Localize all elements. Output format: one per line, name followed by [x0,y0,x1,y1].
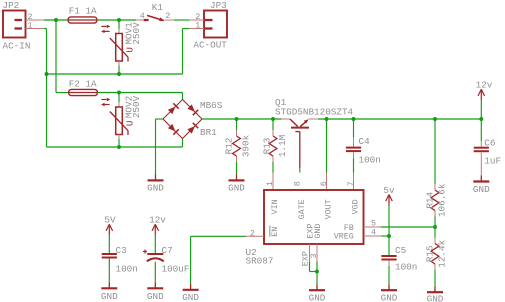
svg-text:12v: 12v [149,215,166,226]
svg-text:JP2: JP2 [3,0,20,11]
wire K1 to JP3-2 [174,19,189,21]
svg-text:VOUT: VOUT [323,199,333,219]
supply 5v at VREG [383,185,395,206]
connector JP2 pin 1 number [28,20,33,30]
capacitor C7 name [162,245,173,256]
wire FB to divider [381,226,435,228]
transistor Q1 part number [275,106,354,117]
fuse F2 label [69,79,97,90]
svg-text:100n: 100n [116,264,138,275]
svg-text:100uF: 100uF [162,264,190,275]
U2 pin name VREG [334,232,354,242]
U2 pin name GATE [297,199,307,219]
capacitor C3 name [116,245,127,256]
svg-text:STGD5NB120SZT4: STGD5NB120SZT4 [275,106,354,117]
svg-text:C4: C4 [359,136,371,147]
wire 5v to VREG node [388,206,390,236]
capacitor C5 bottom lead [388,261,390,285]
wire node row y74 to JP3-1 [47,29,190,75]
svg-text:GND: GND [147,183,164,194]
varistor MOV2 bottom lead [118,135,120,148]
svg-text:390k: 390k [241,134,252,157]
K1 pin 4 lead [136,19,143,21]
svg-text:C5: C5 [395,245,406,256]
svg-text:VIN: VIN [270,199,280,214]
capacitor C4 value 100n [359,154,381,165]
svg-text:6: 6 [319,181,329,186]
junction MOV2 top at (119,92.5) [117,91,121,95]
svg-text:GND: GND [147,291,164,302]
capacitor C5 [381,256,396,260]
svg-text:AC-OUT: AC-OUT [193,40,227,51]
ground on EN net [182,284,199,302]
capacitor C6 value 1uF [484,156,501,167]
junction at (46.5,74) [45,72,49,76]
wire BR1 minus to ground [156,119,164,174]
connector JP3 name label [210,0,227,11]
capacitor C6 bottom lead [480,152,482,175]
svg-text:12v: 12v [476,80,493,91]
U2 pin name FB [344,223,354,233]
resistor R12 [233,136,241,156]
Q1 collector lead [281,118,290,120]
varistor MOV1 bottom lead [118,61,120,74]
resistor R14 leads [434,119,436,227]
BR1 diode left-to-top [168,103,179,114]
wire pin3 to ground [316,262,318,285]
wire down from junction to F2 row [56,20,69,93]
U2 name label [246,247,257,258]
varistor MOV2 top lead [118,93,120,108]
capacitor C3 [102,254,117,258]
U2 pin 1 number [265,181,275,186]
net label EXP [300,251,310,266]
junction MOV1 bottom at (119,74) [117,72,121,76]
BR1 name MB6S [200,100,223,111]
resistor R15 leads [434,227,436,286]
IC U2 box [264,190,364,244]
junction R13 top at (273,119) [271,117,275,121]
svg-text:7: 7 [346,181,356,186]
BR1 diode left-to-bottom [168,124,179,135]
wire DC+ rail [202,118,281,120]
svg-text:R14: R14 [425,192,436,209]
capacitor C6 top lead [480,119,482,147]
U2 pin 6 number [319,181,329,186]
wire VREG node [381,235,389,237]
svg-text:EN: EN [270,227,280,237]
varistor MOV1 value 250V [131,22,142,45]
U2 pin name VOUT [323,199,333,219]
capacitor C4 name [359,136,371,147]
svg-text:EXP: EXP [300,251,310,266]
capacitor C5 value 100n [395,261,417,272]
U2 pin 3 number [309,253,319,258]
K1 fixed contact [144,19,149,21]
junction MOV2 bottom at (119,147) [117,145,121,149]
resistor R14 [431,190,439,211]
resistor R13 name [262,138,273,155]
svg-text:U: U [125,47,136,53]
wire JP2-1 corner [44,29,47,148]
svg-text:GND: GND [182,292,199,302]
svg-text:1uF: 1uF [484,156,501,167]
junction 12v/C6 at (481.3,119) [479,117,483,121]
capacitor C4 [346,148,361,152]
capacitor C7 bottom lead [154,262,156,283]
U2 pin 2 number [250,228,255,238]
wire R13 to U2 pin 1 [272,173,274,191]
svg-text:VGD: VGD [350,199,360,214]
wire 12v rail [318,118,481,120]
varistor MOV1 top lead [118,20,120,34]
U2 pin 5 number [371,219,376,229]
svg-text:R13: R13 [262,138,273,155]
connector JP3 pin 2 number [195,12,200,22]
varistor MOV2 [110,107,128,135]
capacitor C3 value 100n [116,264,138,275]
U2 pin 7 number [346,181,356,186]
capacitor C7 plus sign [143,250,147,254]
connector JP2 pin 2 lead [26,19,45,21]
svg-text:MB6S: MB6S [200,100,223,111]
svg-text:8: 8 [292,181,302,186]
svg-text:K1: K1 [152,2,164,13]
svg-text:SR087: SR087 [246,255,274,266]
Q1 body [290,119,309,128]
svg-text:106.6k: 106.6k [436,183,447,217]
U2 pin 3 lead [316,244,318,262]
bridge rectifier BR1 outline [163,100,202,139]
connector JP3 pin 1 lead [189,28,204,30]
resistor R14 value 106.6k [436,183,447,217]
resistor R13 value 1.1M [277,135,288,157]
wire EXP to pin3 net [310,262,318,272]
BR1 diode bottom-to-right [187,123,198,134]
junction VOUT at (326.5,119) [325,117,329,121]
connector JP2 body [3,11,26,38]
capacitor C5 top lead [388,236,390,255]
svg-text:R15: R15 [425,245,436,262]
svg-text:250V: 250V [131,22,142,45]
svg-text:GND: GND [101,291,118,302]
svg-text:C7: C7 [162,245,173,256]
supply 12v [476,80,493,101]
svg-text:C6: C6 [484,138,495,149]
junction R12 top at (236.5,119) [235,117,239,121]
resistor R13 [269,136,277,156]
svg-text:12.4k: 12.4k [436,239,447,267]
U2 part SR087 [246,255,274,266]
transistor Q1 name [275,97,287,108]
connector JP3 label AC-OUT [193,40,227,51]
resistor R12 name [223,138,234,155]
capacitor C4 bottom lead / U2 pin 7 [353,152,355,190]
U2 EN pin lead [246,235,264,237]
U2 EXP pin lead [309,244,311,262]
connector JP2 label AC-IN [3,41,31,52]
ground under C7 [147,282,164,302]
Q1 emitter lead [308,118,318,120]
svg-text:U: U [125,121,136,127]
varistor MOV2 name label [124,96,135,118]
K1 pin 4 number [140,11,145,21]
resistor R12 value 390k [241,134,252,157]
capacitor C4 top lead [353,119,355,147]
varistor MOV2 nonlinearity arrows [101,98,110,106]
varistor MOV2 U marking [125,121,136,127]
wire bottom AC rail [47,139,183,148]
supply 5V at C3 [104,215,116,236]
K1 blade [147,15,164,21]
svg-text:1: 1 [265,181,275,186]
capacitor C7 top lead [154,236,156,253]
connector JP3 pin 2 lead [189,19,204,21]
svg-text:5V: 5V [104,215,116,226]
ground under C3 [101,282,118,302]
U2 pin name EN with overline [270,226,280,237]
svg-text:GND: GND [381,293,398,302]
U2 pin 8 number [292,181,302,186]
svg-text:JP3: JP3 [210,0,227,11]
connector JP3 pin 1 number [195,20,200,30]
ground under R12 [228,174,245,193]
connector JP2 pin 2 number [28,12,33,22]
svg-text:R12: R12 [223,138,234,155]
svg-text:1.1M: 1.1M [277,135,288,157]
resistor R12 leads [236,119,238,174]
svg-text:5v: 5v [383,185,395,196]
wire 12v to rail [480,101,482,119]
U2 pin name VIN [270,199,280,214]
U2 pin name EXP [306,224,316,239]
supply 12v at C7 [149,215,166,236]
ground under C6 [473,176,490,195]
svg-text:F2 1A: F2 1A [69,79,97,90]
fuse F1 label [69,6,97,17]
junction VREG at (389,236) [387,234,391,238]
junction at (119,20) [117,18,121,22]
varistor MOV2 value 250V [131,95,142,118]
U2 FB pin lead [364,226,381,228]
connector JP3 body [204,11,227,38]
junction C4 top at (353.5,119) [352,117,356,121]
K1 pin 2 number [165,11,170,21]
capacitor C3 bottom lead [108,259,110,283]
fuse F2 1A [69,89,98,95]
svg-text:VREG: VREG [334,232,354,242]
varistor MOV1 [110,34,128,62]
connector JP2 name label [3,0,20,11]
ground under R15 [427,286,444,302]
K1 pin 2 lead [164,19,173,21]
svg-text:100n: 100n [359,154,381,165]
wire VOUT to U2 pin 6 [326,119,328,190]
varistor MOV1 nonlinearity arrows [101,25,110,33]
svg-text:BR1: BR1 [200,127,217,138]
ground under U2 [309,284,326,302]
Q1 gate lead [295,132,299,173]
resistor R15 name [425,245,436,262]
junction EXP/GND at (317,271.5) [315,270,319,274]
BR1 designator [200,127,217,138]
U2 pin name VGD [350,199,360,214]
svg-text:250V: 250V [131,95,142,118]
wire F1 to K1 [97,19,136,21]
connector JP2 pin 1 lead [26,28,45,30]
U2 pin name GND [313,224,323,239]
svg-text:100n: 100n [395,261,417,272]
svg-text:AC-IN: AC-IN [3,41,31,52]
svg-text:GND: GND [309,293,326,302]
svg-text:GND: GND [313,224,323,239]
svg-text:GND: GND [473,184,490,195]
capacitor C3 top lead [108,236,110,254]
ground under C5 [381,284,398,302]
varistor MOV1 name label [124,22,135,45]
relay contact K1 name [152,2,164,13]
resistor R15 value 12.4k [436,239,447,267]
resistor R13 leads [272,119,274,173]
svg-text:C3: C3 [116,245,127,256]
resistor R15 [431,244,439,265]
U2 VREG pin lead [364,235,381,237]
junction at (56,20) [54,18,58,22]
svg-text:GND: GND [427,294,444,302]
svg-text:F1 1A: F1 1A [69,6,97,17]
wire F2 to bridge top [98,93,183,100]
svg-text:GND: GND [228,183,245,194]
varistor MOV1 U marking [125,47,136,53]
svg-text:GATE: GATE [297,199,307,219]
fuse F1 1A [68,17,97,23]
BR1 diode top-to-right [187,104,198,115]
wire EN to ground [191,236,246,283]
capacitor C7 value 100uF [162,264,190,275]
capacitor C5 name [395,245,406,256]
junction FB at (435,227) [433,225,437,229]
capacitor C6 [474,148,489,152]
ground under bridge [147,174,164,193]
junction R14 top at (435,119) [433,117,437,121]
wire JP2-2 to F1 [44,19,68,21]
capacitor C7 [147,254,164,261]
capacitor C6 name [484,138,495,149]
U2 pin 4 number [371,227,376,237]
resistor R14 name [425,192,436,209]
